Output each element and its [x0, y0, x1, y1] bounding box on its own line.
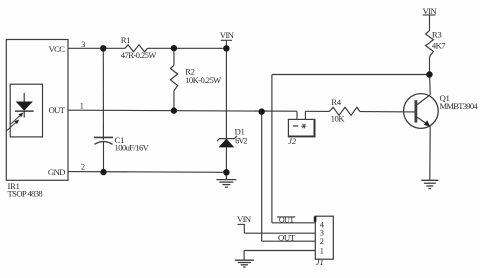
wire collector node to Q1 collector: [429, 75, 432, 95]
junction collector node: [426, 71, 432, 77]
svg-text:10K-0.25W: 10K-0.25W: [185, 75, 222, 85]
svg-text:4K7: 4K7: [432, 41, 446, 51]
wire inverted OUT vertical down to J1 pin4 row: [271, 75, 273, 223]
svg-text:J1: J1: [316, 257, 324, 267]
transistor Q1: [404, 94, 439, 129]
junction C1 bottom on GND line: [100, 169, 106, 175]
svg-text:1: 1: [80, 101, 84, 110]
svg-text:VIN: VIN: [423, 6, 438, 16]
ground symbol below D1: [216, 172, 236, 187]
wire VIN node down to D1 cathode: [225, 48, 227, 138]
wire Q1 emitter to ground: [429, 126, 431, 180]
wire inverted OUT to J1 pin 4: [272, 222, 315, 224]
wire OUT to J1 pin 2: [262, 240, 316, 242]
IR receiver IR1 outline box: [6, 40, 68, 181]
svg-text:1: 1: [320, 246, 324, 255]
svg-text:R3: R3: [432, 30, 442, 40]
wire R2 bottom stub: [173, 91, 175, 111]
wire VIN stub bottom: [243, 225, 245, 234]
svg-text:6V2: 6V2: [235, 137, 247, 146]
svg-text:GND: GND: [48, 167, 65, 177]
wire R3 bottom to collector node: [429, 57, 431, 75]
wire VIN stub to VCC line: [225, 41, 227, 49]
svg-text:100uF/16V: 100uF/16V: [115, 142, 150, 152]
jumper J2 inner marks: [293, 125, 298, 127]
net label VIN (top right): [423, 6, 438, 16]
resistor R1: [125, 45, 148, 52]
svg-text:TSOP 4838: TSOP 4838: [8, 189, 43, 199]
IR1 inner photodiode box: [10, 84, 42, 137]
svg-text:3: 3: [81, 40, 85, 49]
connector J1 box: [314, 216, 334, 259]
svg-text:2: 2: [320, 237, 324, 246]
junction D1 anode / GND line: [223, 169, 229, 175]
svg-text:VIN: VIN: [237, 214, 252, 224]
svg-text:OUT: OUT: [278, 232, 296, 242]
wire VCC pin3 from IR1 to R1: [68, 47, 125, 49]
wire C1 top (VCC node down to C1): [102, 48, 104, 140]
junction VCC/R1 left: [100, 45, 106, 51]
wire J2 left pin stub: [296, 111, 298, 119]
wire C1 bottom to GND line: [103, 142, 105, 172]
svg-text:47R-0.25W: 47R-0.25W: [121, 50, 157, 60]
wire D1 anode down to ground: [225, 147, 227, 172]
wire GND pin2 from IR1 to D1 anode node: [68, 171, 226, 174]
net label VIN (top middle): [220, 30, 235, 41]
wire J2 right pin to R4 to Q1 base: [305, 110, 329, 112]
svg-text:R1: R1: [121, 35, 130, 45]
resistor R4: [329, 107, 360, 115]
ground symbol at J1 pin1: [235, 260, 254, 267]
wire OUT pin1 from IR1 to J2 left pin: [68, 110, 297, 111]
wire OUT node vertical down to J1 pin2 row: [261, 112, 263, 242]
wire J1 pin 1 to ground: [244, 250, 315, 252]
svg-text:10K: 10K: [331, 114, 346, 124]
junction VIN node: [223, 45, 229, 51]
net label VIN (bottom, to J1 pin3): [237, 214, 252, 224]
zener diode D1: [217, 136, 237, 148]
wire R1 to VIN node: [148, 47, 227, 49]
junction R1/R2/VIN: [171, 45, 177, 51]
wire J2 right pin stub: [304, 111, 306, 119]
IR1 photodiode: [16, 94, 33, 118]
ground symbol below Q1 emitter: [421, 180, 438, 188]
svg-text:OUT: OUT: [49, 105, 66, 115]
svg-text:MMBT3904: MMBT3904: [440, 101, 479, 111]
wire collector node horizontal (inverted OUT): [272, 74, 430, 76]
wire R2 top stub: [173, 48, 175, 65]
capacitor C1: [94, 137, 113, 144]
svg-text:2: 2: [81, 162, 85, 171]
net label inverted OUT (to J1 pin4): [277, 215, 295, 224]
svg-text:VCC: VCC: [48, 44, 65, 54]
svg-text:VIN: VIN: [220, 30, 235, 40]
jumper J2 box: [288, 119, 315, 136]
wire VIN stub top right to R3: [429, 15, 431, 30]
junction OUT line to J1 tap: [259, 108, 265, 114]
wire VIN to J1 pin 3: [244, 232, 315, 234]
IR1 incoming light arrows: [7, 113, 24, 131]
svg-text:J2: J2: [288, 136, 297, 146]
svg-text:R4: R4: [331, 97, 341, 107]
resistor R3: [426, 31, 434, 57]
svg-text:D1: D1: [235, 127, 245, 137]
junction R2 bottom on OUT line: [171, 107, 177, 113]
resistor R2: [170, 65, 177, 91]
